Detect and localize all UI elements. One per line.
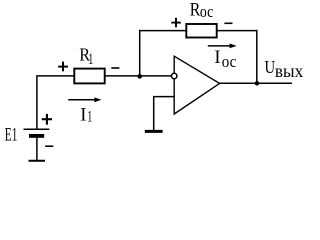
plus sign at battery (42, 114, 52, 125)
resistor Roc (186, 24, 216, 38)
wire: feedback branch up from junction (139, 30, 141, 76)
svg-text:ос: ос (222, 52, 237, 71)
svg-text:вых: вых (275, 61, 303, 81)
plus sign at Roc left (171, 18, 181, 28)
wire: battery positive up and right to op-amp inverting input (37, 76, 172, 129)
ground symbol at op-amp (145, 130, 163, 133)
minus sign at Roc right (224, 22, 232, 24)
resistor R1 (74, 69, 104, 84)
svg-text:1: 1 (87, 109, 92, 126)
ground bar under E1 (29, 160, 46, 162)
minus sign at R1 right (111, 67, 119, 69)
current arrow Ioc (208, 44, 237, 49)
wire: non-inverting input to ground (154, 97, 175, 130)
inverting input bubble (172, 73, 177, 78)
svg-text:U: U (265, 57, 276, 77)
svg-text:1: 1 (88, 51, 93, 68)
wire: top run from feedback corner to Roc (139, 30, 186, 32)
battery E1 (24, 129, 50, 160)
plus sign at R1 left (58, 62, 68, 72)
svg-text:ос: ос (200, 2, 214, 21)
op-amp U1 triangle (174, 56, 219, 114)
junction node at inverting input (137, 74, 142, 79)
wire: Roc to right feedback corner (218, 30, 258, 32)
wire: feedback branch down to output node (256, 30, 258, 83)
minus sign at battery (45, 145, 53, 147)
svg-text:E1: E1 (5, 126, 18, 146)
svg-text:I: I (214, 48, 220, 68)
wire: op-amp output (220, 82, 292, 84)
current arrow I1 (68, 97, 101, 102)
junction node at output (255, 81, 260, 86)
svg-text:I: I (80, 106, 86, 126)
